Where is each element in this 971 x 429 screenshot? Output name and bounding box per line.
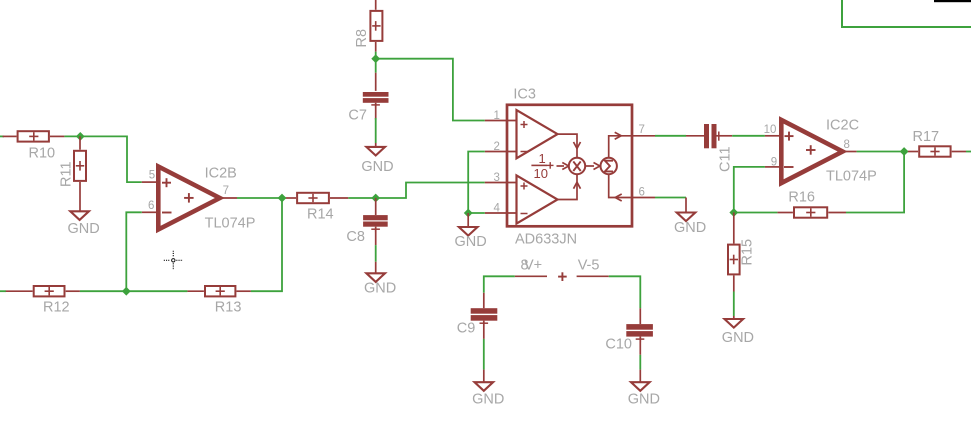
wire: [348, 183, 485, 199]
capacitor C8: [346, 198, 387, 245]
pin 7: [632, 124, 655, 136]
ground: [472, 370, 504, 408]
bus bar: [934, 0, 971, 2]
svg-text:6: 6: [148, 200, 154, 212]
frame wire: [842, 0, 971, 27]
svg-text:GND: GND: [674, 220, 706, 236]
svg-text:6: 6: [639, 187, 645, 199]
wire: [237, 197, 286, 199]
svg-text:AD633JN: AD633JN: [515, 232, 577, 248]
svg-text:V-5: V-5: [578, 258, 600, 274]
resistor R15: [728, 213, 756, 292]
summer node sigma: [601, 158, 617, 174]
multiplier node X: [569, 158, 585, 174]
supply V-5: [577, 258, 609, 277]
ground: [364, 262, 396, 297]
junction: [900, 147, 909, 156]
resistor R16: [777, 190, 846, 218]
ground: [455, 213, 487, 250]
resistor R12: [6, 286, 80, 315]
svg-text:C11: C11: [718, 146, 734, 172]
wire: [64, 136, 141, 182]
svg-text:1: 1: [539, 151, 546, 166]
svg-text:R16: R16: [788, 190, 815, 206]
svg-text:R17: R17: [913, 129, 940, 145]
svg-text:4: 4: [494, 203, 501, 215]
svg-text:R12: R12: [43, 299, 70, 315]
resistor R13: [187, 286, 251, 315]
svg-text:GND: GND: [361, 159, 393, 175]
arrow X to sum: [585, 163, 600, 170]
svg-text:3: 3: [494, 172, 500, 184]
wire: [857, 151, 908, 153]
pin 6: [632, 187, 655, 199]
gain label 1/10: [531, 151, 553, 181]
internal wire pin 6 to sigma: [609, 174, 632, 201]
svg-text:7: 7: [223, 185, 229, 197]
svg-text:C8: C8: [346, 229, 365, 245]
junction: [278, 194, 287, 203]
svg-text:V+: V+: [524, 258, 542, 274]
svg-text:C10: C10: [605, 337, 632, 353]
svg-text:R14: R14: [307, 206, 334, 222]
wire: [0, 135, 4, 137]
wire: [0, 290, 6, 292]
ground: [361, 143, 393, 175]
wire: [846, 152, 904, 213]
svg-text:10: 10: [764, 124, 777, 136]
pin 1: [485, 110, 517, 122]
wire: [655, 135, 686, 137]
svg-text:GND: GND: [68, 221, 100, 237]
resistor R17: [908, 129, 966, 157]
svg-text:GND: GND: [472, 392, 504, 408]
svg-text:7: 7: [639, 124, 645, 136]
capacitor C11: [686, 124, 734, 172]
wire: [375, 52, 377, 73]
ground: [674, 198, 706, 236]
wire: [639, 355, 641, 370]
amp A2 inside IC3: [517, 175, 558, 223]
wire: [966, 151, 971, 153]
wire: [80, 290, 187, 292]
internal wire sigma to pin 7: [609, 132, 632, 158]
wire: [375, 245, 377, 262]
svg-text:R11: R11: [59, 161, 75, 187]
junction: [371, 194, 380, 203]
svg-text:GND: GND: [455, 234, 487, 250]
svg-text:TL074P: TL074P: [826, 169, 877, 185]
wire: [734, 212, 778, 214]
svg-text:R13: R13: [215, 299, 242, 315]
junction: [371, 54, 380, 63]
multiplier IC3: [507, 87, 632, 248]
svg-text:IC2C: IC2C: [826, 118, 859, 134]
pin 3: [485, 172, 517, 184]
amp A1 inside IC3: [517, 110, 558, 158]
svg-text:C7: C7: [348, 108, 367, 124]
svg-text:5: 5: [149, 170, 155, 182]
wire: [732, 135, 765, 137]
wire: [655, 197, 686, 199]
wire: [468, 152, 485, 214]
junction: [464, 209, 473, 218]
capacitor C9: [457, 293, 498, 339]
wire: [484, 276, 515, 293]
wire: [375, 118, 377, 143]
supply V+: [515, 258, 547, 277]
svg-text:10: 10: [534, 166, 548, 181]
resistor R14: [286, 193, 348, 223]
svg-text:R15: R15: [740, 239, 756, 266]
pin 2: [485, 141, 517, 153]
internal wire A1 to X: [558, 134, 581, 158]
wire: [733, 292, 735, 317]
wire: [251, 198, 282, 291]
wire: [483, 339, 485, 370]
svg-text:R10: R10: [29, 146, 56, 162]
wire: [126, 212, 142, 291]
svg-text:GND: GND: [722, 330, 754, 346]
internal wire A2 to X: [558, 174, 581, 199]
resistor R11: [59, 136, 87, 195]
wire: [468, 212, 485, 214]
ground: [722, 316, 754, 346]
svg-text:2: 2: [494, 141, 500, 153]
svg-text:R8: R8: [354, 29, 370, 48]
wire: [734, 167, 765, 213]
resistor R8: [354, 0, 382, 52]
supply plus mark: [558, 272, 567, 281]
wire: [609, 276, 641, 308]
resistor R10: [3, 131, 65, 161]
svg-text:1: 1: [494, 110, 500, 122]
arrow into X: [557, 163, 569, 170]
wire: [376, 59, 485, 121]
svg-text:GND: GND: [364, 280, 396, 296]
op-amp IC2B: [142, 165, 256, 231]
junction: [729, 208, 738, 217]
ground: [628, 370, 660, 408]
svg-text:GND: GND: [628, 392, 660, 408]
ground: [68, 195, 100, 237]
capacitor C10: [605, 308, 652, 355]
svg-text:9: 9: [771, 156, 777, 168]
junction: [122, 287, 131, 296]
svg-text:TL074P: TL074P: [205, 216, 256, 232]
op-amp IC2C: [764, 118, 877, 185]
svg-text:IC2B: IC2B: [205, 165, 237, 181]
pin 4: [485, 203, 517, 215]
svg-text:IC3: IC3: [513, 87, 536, 103]
junction: [76, 132, 85, 141]
capacitor C7: [348, 73, 388, 124]
svg-text:8: 8: [844, 139, 850, 151]
origin cross: [164, 251, 183, 270]
svg-text:C9: C9: [457, 321, 476, 337]
